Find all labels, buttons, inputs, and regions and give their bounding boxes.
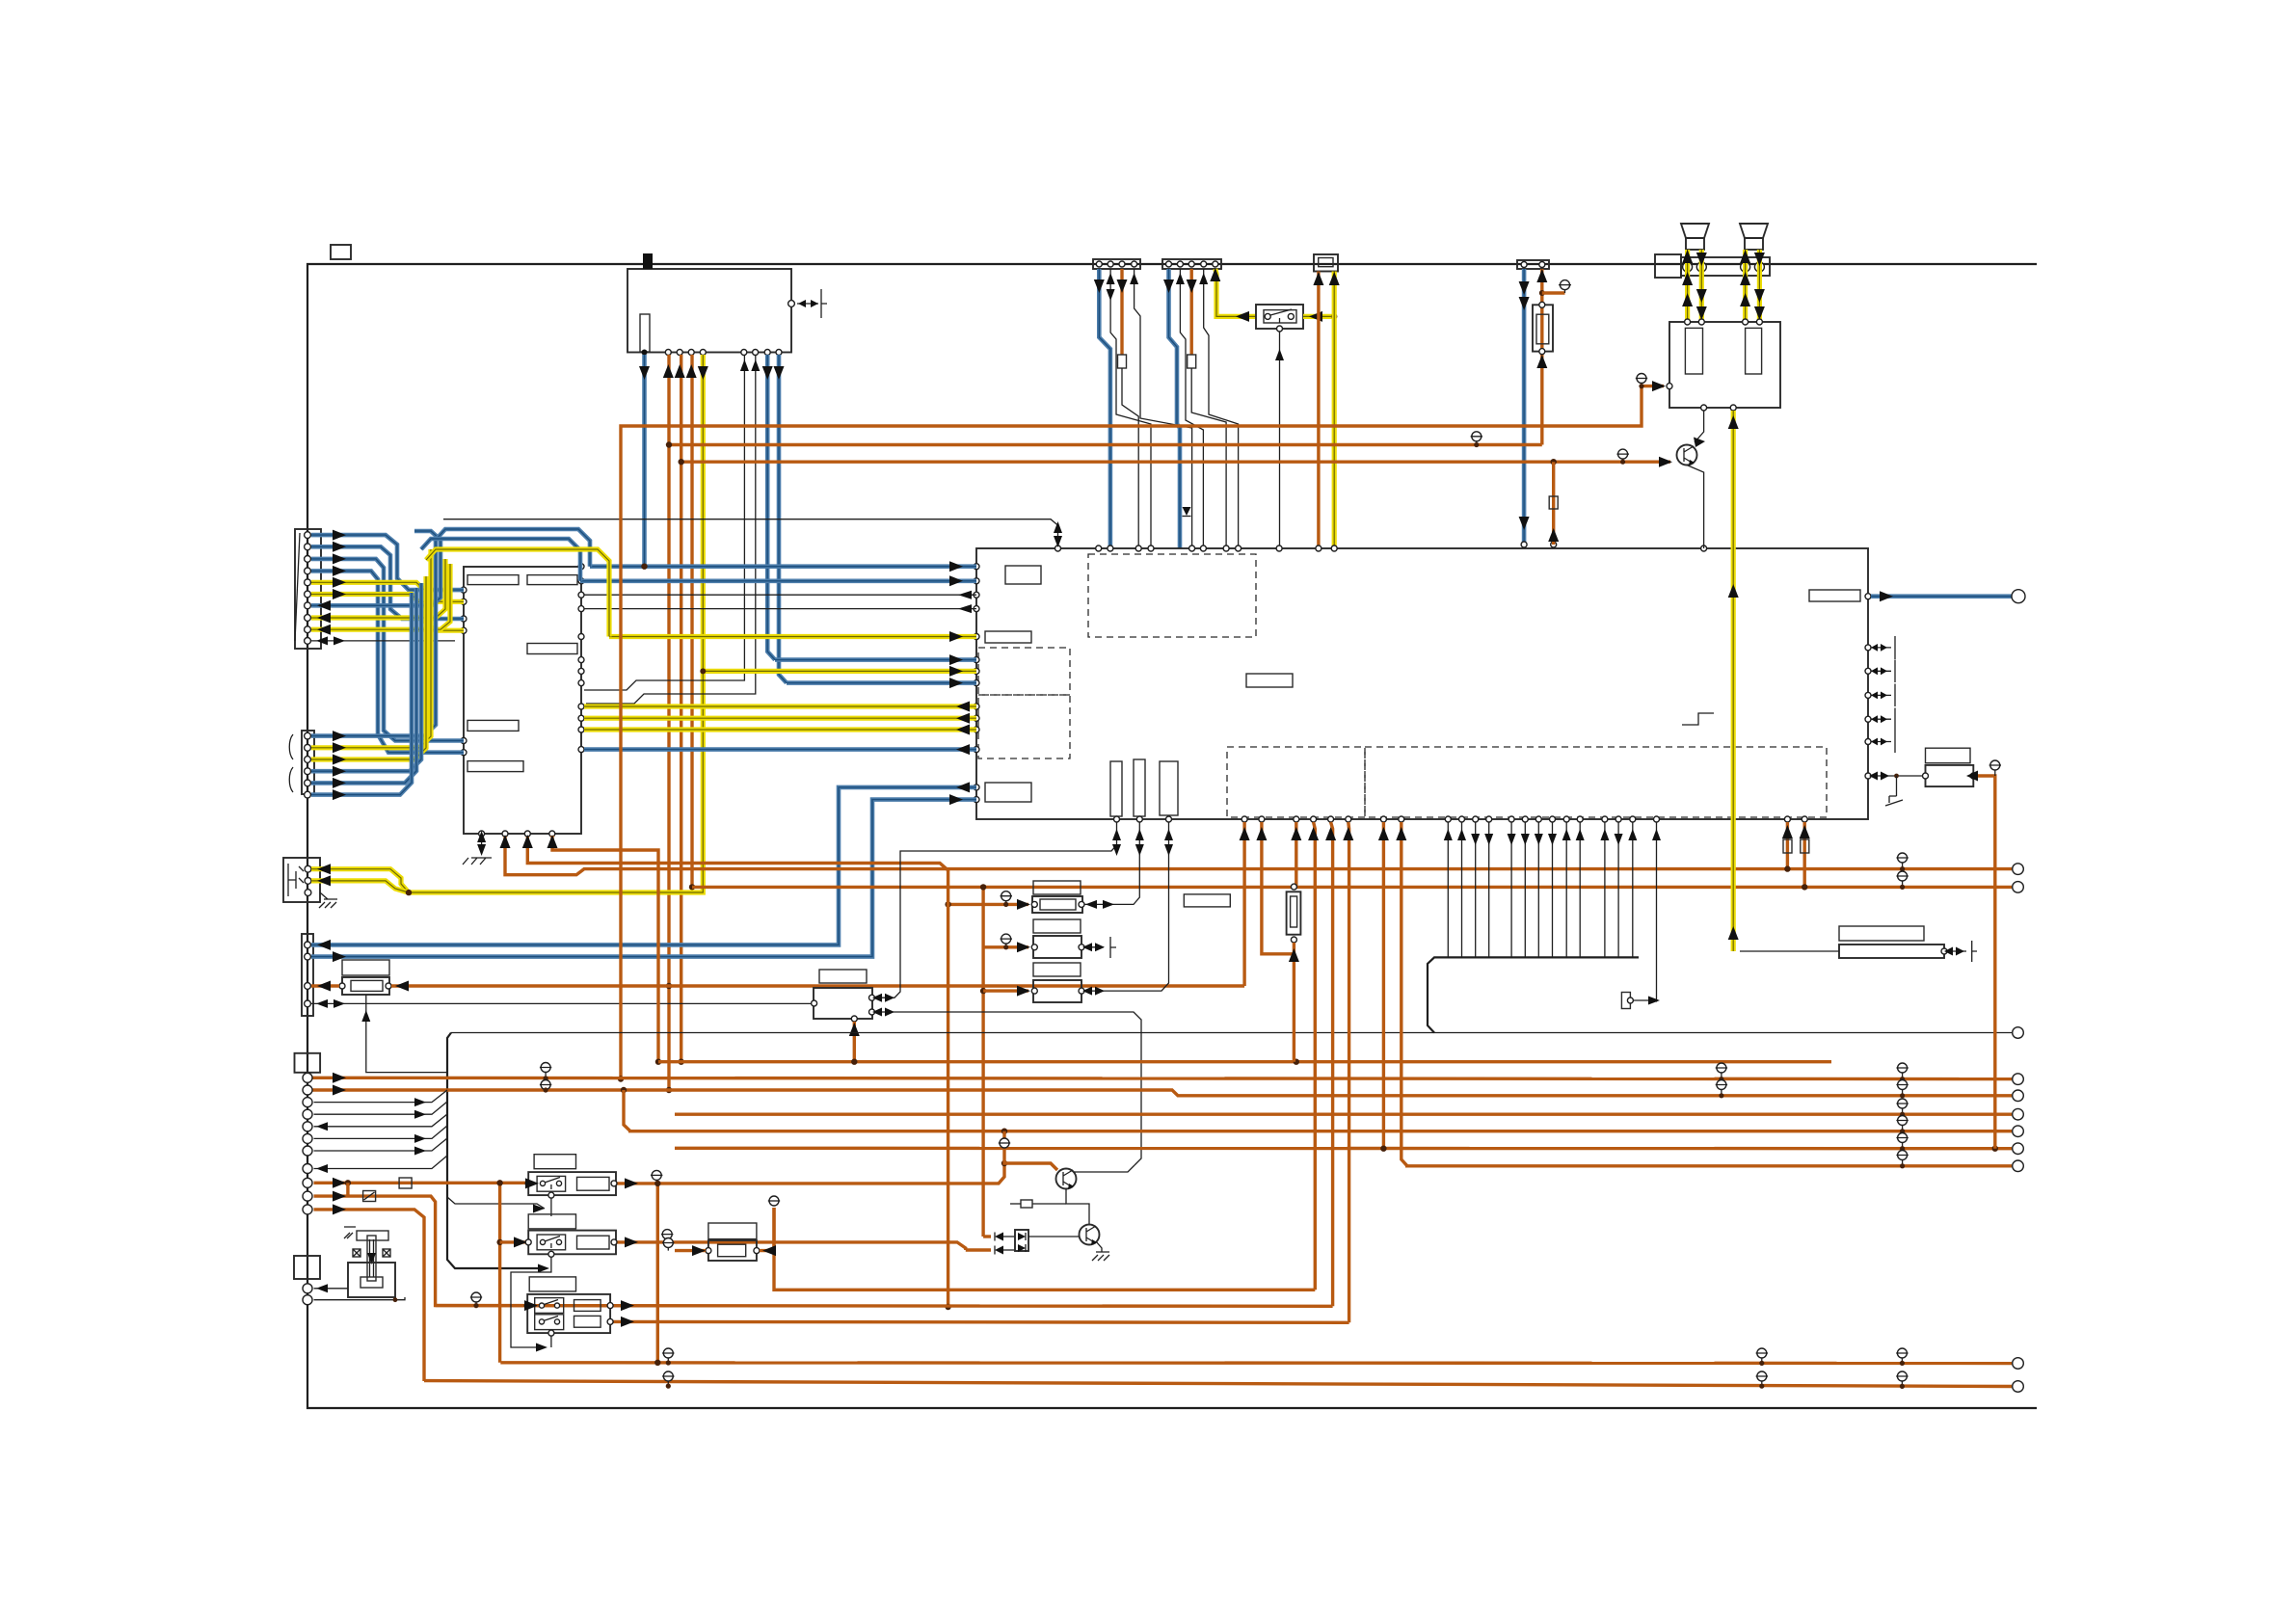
pot VR3: [1033, 980, 1081, 1002]
Q1 base wire from service bus: [1074, 1165, 1135, 1172]
IC top feed from T3: [1552, 462, 1555, 545]
wire to relay1: [314, 1182, 526, 1184]
transistor Q1: [1056, 1169, 1077, 1189]
bus L4 branch from L2: [621, 1087, 627, 1093]
tap on T2: [1472, 432, 1482, 441]
fuse F1 inside tuner: [640, 314, 650, 352]
CN11 wires join weave: [311, 540, 436, 736]
other IC orange drops to bottom row buses: [1314, 822, 1316, 1290]
relay out arrows: [625, 1178, 638, 1188]
orange wire into CN12 pin3 through R10: [311, 984, 339, 987]
bus L6: [1405, 1164, 2012, 1167]
bus T3: [681, 461, 1670, 464]
wire orange tuner pin4 down to left block: [690, 355, 693, 887]
connector symbol: [1561, 280, 1570, 290]
VR1 wiper to IC: [1084, 822, 1139, 904]
wire blue CN2 down to IC: [1169, 269, 1181, 548]
wire thin CN2 pin2: [1180, 269, 1203, 548]
connector strip CN1: [1093, 259, 1140, 269]
wire thin CN1 pin4: [1135, 269, 1192, 548]
wire yellow switch right to vertical: [1303, 314, 1334, 319]
fuse drop to L0: [1295, 822, 1297, 887]
wire blue: [787, 680, 976, 685]
blue return wire: [311, 531, 441, 605]
wire thin CN1 pin2: [1110, 269, 1151, 548]
wire orange CN3 pin2 down through fuse: [1540, 269, 1543, 445]
blue wires from CN10 into weave: [311, 535, 464, 590]
wire module lower to transistor bus: [875, 1012, 1142, 1165]
left block left edge pins: [461, 587, 467, 593]
wire blue tuner to IC left: [642, 355, 647, 567]
weave tops joining IC lines over the block: [436, 529, 590, 567]
speaker SP1: [1681, 224, 1709, 238]
ground below left block: [481, 837, 483, 852]
bus L5: [675, 1147, 2012, 1151]
bus L2: [311, 1090, 2012, 1096]
wire yellow tuner to jack: [409, 355, 703, 892]
muting wire with connector: [1656, 822, 1658, 1002]
stub at 1097: [443, 519, 1058, 545]
volume feed vertical: [947, 870, 949, 1307]
tap on T1 at amp feed: [1637, 374, 1646, 384]
Q2 ground: [1096, 1241, 1102, 1252]
connector CN12 (4pin strip): [302, 934, 313, 1016]
remote box pair B: [1839, 926, 1924, 941]
shield combs on right edge: [1871, 636, 1895, 753]
IC bottom terminals: [1114, 816, 1808, 822]
wire thin black tuner pins: [584, 355, 744, 690]
wire blue out: [584, 747, 976, 752]
wire to relay3: [314, 1196, 526, 1306]
switch sense wire to IC: [1279, 332, 1281, 548]
diode D2 row 1: [983, 1235, 991, 1237]
relay K2: [528, 1214, 575, 1229]
wire to bus Y4: [314, 1210, 425, 1381]
wire blue tuner right pins down: [767, 355, 775, 660]
thin wire CN12 pin4 to module: [311, 1002, 814, 1004]
relay1 branch: [447, 1197, 545, 1209]
page tag box: [331, 245, 351, 259]
left block right edge pins: [578, 564, 584, 570]
IC to battery wire: [1871, 775, 1922, 777]
resistor module R10: [342, 960, 389, 975]
bus L3: [675, 1112, 2012, 1115]
wire blue: [590, 564, 976, 569]
inner label boxes: [1005, 566, 1041, 584]
wire blue: [775, 657, 976, 662]
gather bar: [1428, 957, 1639, 1032]
wire orange tuner pin3 down: [680, 355, 682, 1062]
yellow return wires: [311, 559, 445, 618]
thin pin wires to service bus: [314, 1090, 448, 1103]
tap on T3: [1618, 449, 1628, 459]
wire yellow CN2 pin5 from switch: [1215, 269, 1256, 316]
blue wire CN12 pin2 to IC: [311, 800, 976, 957]
relay chain vertical: [498, 1183, 501, 1363]
VR3 wiper to IC: [1084, 822, 1169, 991]
bus Y2: [610, 1320, 1349, 1324]
relay2 out to diode row: [617, 1242, 966, 1250]
connector strip CN2: [1162, 259, 1221, 269]
tuner box U1: [627, 269, 791, 353]
bus L4: [628, 1130, 2012, 1132]
pot VR1: [1032, 896, 1082, 913]
IC right terminals: [1865, 594, 1871, 599]
wire yellow out: [584, 704, 976, 708]
fuse box F2: [1533, 305, 1553, 351]
breaker box on border: [1314, 254, 1338, 272]
bus Y1 (through relay3): [436, 1304, 1333, 1308]
antenna symbol: [797, 303, 818, 305]
wire thin out: [584, 594, 976, 596]
speaker SP2: [1740, 224, 1768, 238]
tuner bottom terminals: [642, 350, 648, 356]
battery module A: [1926, 748, 1971, 763]
IC top terminals: [1055, 545, 1061, 551]
diode D3 row 2: [966, 1248, 991, 1251]
bus T2: [669, 443, 1542, 446]
relay1 out vertical to Y3: [656, 1184, 659, 1363]
yellow jack wires: [311, 869, 409, 892]
bus L1: [311, 1078, 2012, 1078]
blue line out: [1871, 594, 2012, 599]
connector CN13: [294, 1256, 320, 1279]
wire blue CN3 down to IC: [1522, 269, 1527, 545]
blue wire IC to CN12 pin1: [311, 787, 976, 945]
border frame: [307, 264, 2037, 1408]
VR2 wiper to frame: [1084, 946, 1104, 948]
relay K1: [534, 1155, 575, 1169]
bus Y0: [774, 1208, 1315, 1290]
step glyph: [1682, 713, 1714, 725]
pot VR2: [1033, 936, 1081, 958]
dashed function blocks: [1088, 554, 1256, 637]
IC bottom thin wires to gather bar: [1448, 822, 1633, 957]
transistor Q3: [1677, 445, 1697, 466]
taps near relays: [652, 1170, 661, 1180]
wire yellow: [609, 634, 976, 639]
orange feed from vertical: [1976, 776, 1995, 1149]
yellow speaker wires: [1685, 250, 1690, 322]
amp bottom black wire to transistor Q3: [1695, 411, 1704, 442]
speaker connector strip: [1655, 254, 1681, 278]
yellow wires from CN10: [311, 582, 464, 630]
black mount tab: [643, 253, 653, 269]
yellow feedback wire: [1731, 411, 1736, 951]
second stack feed vertical: [981, 887, 984, 1237]
wire module to IC bottom: [875, 822, 1117, 998]
orange feed below module: [853, 1022, 856, 1062]
pot feed module (bottom left of stack): [708, 1223, 757, 1239]
wire relay1 out to amp-mute transistor: [617, 1163, 1004, 1184]
fused supply drops from IC bottom right: [1786, 822, 1789, 869]
connector strip CN3: [1517, 260, 1549, 269]
diode D1 on service wire: [1183, 507, 1191, 516]
power switch S1: [1256, 305, 1303, 329]
wire blue: [580, 578, 976, 583]
IC bottom orange drops: [1242, 822, 1245, 986]
black bus: [451, 1032, 2012, 1034]
connector CN10 (10pin): [295, 529, 321, 649]
jack ground: [319, 892, 337, 908]
bus Y4: [424, 1381, 2012, 1387]
wire yellow breaker down to IC: [1332, 272, 1337, 549]
Q1 emitter chain to Q2: [1066, 1189, 1089, 1225]
bus Y3: [500, 1361, 2012, 1365]
wire orange breaker down to IC: [1317, 272, 1320, 549]
bus L0: [658, 1060, 1831, 1063]
wire orange tuner pin2 down: [667, 355, 670, 1090]
wire mech block supply from bus L0: [552, 836, 658, 1062]
taps on stack feeds: [1001, 891, 1011, 901]
thin wire from R10 bottom to black bus: [366, 995, 447, 1073]
wire blue CN1 down to IC: [1099, 269, 1110, 548]
three driver rects at bottom: [1110, 761, 1122, 816]
wire orange CN1 pin3 with fuse: [1120, 269, 1123, 355]
left block bottom terminals: [479, 831, 485, 837]
bus T1: [621, 386, 1664, 1080]
bus M2 (from T1 leg): [692, 886, 2012, 889]
wire yellow: [703, 669, 976, 674]
headphone jack J1: [283, 858, 320, 902]
transistor Q2: [1080, 1225, 1100, 1245]
bus M3 into pot stack: [527, 837, 948, 870]
IC left terminals: [974, 564, 979, 570]
thin wire pin10: [311, 640, 455, 642]
relay K3 double: [529, 1277, 575, 1291]
antenna terminal: [788, 301, 795, 307]
bus M1: [505, 837, 2012, 875]
orange feed from bus L4: [1001, 1129, 1007, 1134]
wire orange CN2 pin3 with fuse: [1189, 269, 1192, 355]
output amp box: [1669, 322, 1780, 408]
wire thin CN2 pin4: [1204, 269, 1239, 548]
connector CN11 (6pin): [302, 731, 314, 794]
diode pack D4: [1015, 1230, 1028, 1251]
